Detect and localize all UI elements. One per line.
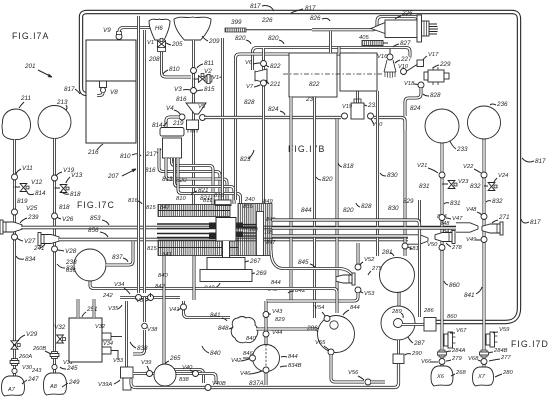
svg-text:840: 840 — [210, 350, 221, 357]
pipe V55 to bottom — [331, 355, 364, 382]
label 826 — [310, 15, 330, 22]
label V30 — [371, 119, 383, 128]
svg-text:815: 815 — [146, 205, 156, 211]
connector 271 — [482, 222, 503, 235]
valve ball V4 left of funnel — [179, 114, 185, 120]
valve ball V6 — [261, 61, 267, 67]
svg-text:208: 208 — [148, 56, 160, 63]
svg-text:V40B: V40B — [212, 381, 226, 387]
pipe vertical x194 below engine — [193, 256, 196, 300]
label V40B — [212, 381, 226, 387]
svg-text:277: 277 — [500, 355, 511, 361]
pipe 848 engine out — [272, 226, 456, 229]
svg-text:201: 201 — [24, 63, 36, 70]
label V32 — [54, 324, 66, 331]
label 817 right lower — [521, 219, 541, 226]
svg-text:217: 217 — [145, 151, 157, 158]
svg-text:289: 289 — [391, 309, 402, 315]
valve ball V37 — [148, 295, 154, 301]
svg-text:819: 819 — [17, 198, 28, 205]
label 837 — [112, 254, 128, 262]
vessel 209 — [174, 17, 211, 40]
svg-text:V55: V55 — [315, 340, 326, 346]
svg-text:841: 841 — [464, 292, 475, 299]
label V28 — [57, 248, 77, 255]
svg-text:V21: V21 — [417, 163, 427, 169]
label 813 — [162, 176, 173, 183]
svg-text:FIG.I7C: FIG.I7C — [77, 200, 115, 210]
svg-text:V33: V33 — [113, 358, 124, 364]
pipe vertical x291 from box — [290, 97, 293, 300]
valve ball V19 left of 231 — [342, 113, 348, 119]
fitting V35a right of 251 — [102, 333, 122, 340]
engine right shaft — [243, 225, 256, 237]
label 841 row — [210, 312, 227, 321]
pipe 289 down to valve 290 — [397, 340, 400, 354]
label 820 stair — [176, 177, 187, 184]
svg-text:831: 831 — [450, 200, 461, 207]
valve ball V42 — [250, 355, 256, 361]
svg-text:V43: V43 — [272, 309, 283, 315]
label 205 — [166, 41, 183, 48]
label V37 — [136, 298, 149, 304]
svg-text:V32: V32 — [54, 324, 66, 331]
pipe stem V52 — [357, 243, 360, 264]
svg-text:V34: V34 — [103, 341, 113, 347]
reservoir 233 — [425, 109, 459, 143]
engine top rail — [215, 200, 231, 206]
label 271 — [492, 214, 510, 223]
label 856 — [88, 227, 108, 237]
valve V67 solenoid — [444, 332, 456, 348]
tank 216 rectangle — [86, 40, 136, 143]
label V44 — [272, 330, 282, 336]
svg-text:V17: V17 — [428, 52, 439, 58]
svg-text:810: 810 — [120, 153, 131, 160]
label V50 — [427, 242, 438, 248]
fitting 284B — [480, 350, 489, 357]
svg-text:249: 249 — [68, 379, 80, 386]
label 828 under 229 — [0, 0, 1, 1]
svg-text:840: 840 — [246, 336, 256, 342]
pipe 844 engine out — [272, 220, 420, 240]
svg-text:V19: V19 — [342, 104, 352, 110]
reservoir 236 — [468, 106, 501, 139]
svg-text:V26: V26 — [62, 216, 74, 223]
svg-text:810: 810 — [176, 196, 186, 202]
label V23 — [458, 179, 469, 185]
svg-text:238: 238 — [65, 259, 77, 266]
svg-text:V49: V49 — [466, 237, 477, 243]
pipe 209 stem down to engine — [192, 40, 195, 204]
svg-text:284B: 284B — [493, 348, 508, 354]
engine top band split line — [158, 210, 230, 212]
svg-text:820: 820 — [176, 177, 187, 184]
label 818 left — [61, 191, 81, 198]
label V2 — [204, 68, 212, 75]
svg-text:V46: V46 — [240, 371, 251, 377]
svg-text:820: 820 — [343, 207, 354, 214]
svg-text:X6: X6 — [436, 374, 445, 380]
reservoir 238 — [74, 249, 106, 281]
label V7 — [246, 84, 260, 90]
label V16 — [377, 54, 388, 60]
svg-text:829: 829 — [275, 317, 285, 323]
svg-text:251: 251 — [86, 306, 98, 313]
label 840 S — [202, 346, 221, 357]
svg-text:290: 290 — [411, 351, 422, 357]
label V25 — [26, 205, 38, 212]
valve ball V40B — [205, 385, 211, 391]
svg-text:V42: V42 — [231, 358, 242, 364]
valve ball V38 — [142, 323, 148, 329]
valve ball V40 — [193, 371, 199, 377]
label V5 — [198, 104, 206, 110]
valve ball V28 — [52, 246, 58, 252]
svg-text:V50: V50 — [427, 242, 438, 248]
label 845 — [298, 259, 315, 268]
label V26 — [57, 216, 74, 223]
svg-text:817: 817 — [530, 219, 541, 226]
label V24 — [494, 173, 508, 182]
svg-text:824: 824 — [410, 105, 421, 112]
svg-text:816: 816 — [176, 96, 187, 103]
muffler 269 — [200, 270, 252, 282]
label V59 — [493, 327, 510, 333]
label 834B — [280, 363, 302, 369]
label 226 assembly — [395, 10, 413, 19]
svg-text:V29: V29 — [26, 331, 38, 338]
engine left shaft lower — [157, 234, 209, 238]
label 816 x143 — [128, 198, 142, 204]
label V43 — [268, 309, 283, 315]
svg-text:815: 815 — [147, 246, 157, 252]
svg-text:838: 838 — [137, 345, 148, 352]
blower 848 cloud — [231, 317, 258, 343]
label 846 gauge — [243, 351, 253, 357]
pipe cloud to reservoir 286 — [256, 329, 319, 332]
svg-text:V40: V40 — [182, 365, 193, 371]
label 286 pump — [306, 325, 318, 332]
label V32 fit — [95, 324, 106, 330]
label 848 mid — [268, 287, 278, 293]
label 277 — [489, 355, 511, 361]
pipe 824 right segment — [374, 118, 405, 131]
label 284B — [489, 348, 508, 354]
label 848 cloud — [218, 325, 233, 332]
label 830 low — [388, 205, 399, 212]
pipe 837A bottom long — [136, 363, 399, 388]
svg-text:221: 221 — [269, 81, 281, 88]
label 268 — [451, 370, 466, 376]
svg-text:V67: V67 — [456, 328, 467, 334]
label 820 b — [268, 35, 284, 44]
pipe filter to bottom — [131, 379, 136, 388]
label V18 — [404, 81, 418, 87]
svg-text:860: 860 — [447, 314, 457, 320]
svg-text:284A: 284A — [451, 348, 466, 354]
label 838 — [130, 342, 148, 352]
label 847 out — [443, 229, 453, 235]
svg-text:211: 211 — [20, 95, 31, 102]
svg-text:242: 242 — [102, 293, 113, 299]
label 824 right — [410, 105, 421, 112]
label 831 — [419, 183, 430, 190]
label 844 out — [437, 214, 447, 220]
engine hatch bottom band — [158, 240, 238, 256]
label 165 channel — [264, 230, 273, 236]
injector 226 cylinder — [385, 20, 417, 38]
svg-text:820: 820 — [235, 35, 246, 42]
svg-text:268: 268 — [455, 370, 466, 376]
svg-text:V13: V13 — [71, 172, 83, 179]
label 847 block — [266, 240, 276, 246]
label 290 — [405, 351, 422, 357]
svg-text:V48: V48 — [466, 207, 477, 213]
pipe 824 mid branch — [236, 54, 358, 200]
svg-text:265: 265 — [169, 355, 181, 362]
label V39A — [98, 380, 120, 388]
svg-text:810: 810 — [169, 66, 180, 73]
svg-text:399: 399 — [231, 19, 242, 26]
label V34 fit — [103, 341, 113, 347]
label 822 — [309, 81, 320, 88]
svg-text:844: 844 — [350, 305, 360, 311]
label 841 right — [464, 287, 482, 299]
label 844 low — [301, 207, 312, 214]
valve V14 branch — [194, 74, 212, 84]
svg-text:V6: V6 — [245, 60, 253, 66]
label 832 v — [486, 198, 503, 205]
svg-text:278: 278 — [451, 245, 462, 251]
pipe staircase e to engine — [178, 158, 241, 204]
pump 286 reservoir — [318, 316, 355, 353]
control box 822 right — [340, 53, 377, 91]
svg-text:816: 816 — [128, 198, 138, 204]
label 814 — [27, 190, 46, 197]
valve ball V48 — [481, 214, 487, 220]
pipe 820 upper branch — [253, 48, 411, 71]
label 827 — [393, 40, 411, 47]
label V39 — [141, 360, 152, 370]
svg-text:813: 813 — [162, 176, 173, 183]
hatch bar 399 — [225, 28, 246, 32]
label 828 — [423, 92, 441, 99]
tank 216 divider — [86, 80, 136, 82]
pipe staircase a to engine — [159, 148, 220, 204]
label 820 r — [316, 176, 333, 183]
svg-text:V56: V56 — [348, 370, 359, 376]
label 208 — [148, 56, 160, 63]
label 239 — [20, 214, 39, 223]
label 849 — [263, 199, 273, 205]
label 840 chain — [246, 336, 256, 342]
pipe V6-V7 vertical — [262, 48, 265, 203]
label V6 — [245, 60, 260, 66]
valve ball V22 — [481, 172, 487, 178]
svg-text:811: 811 — [204, 60, 214, 67]
label 820 low — [343, 207, 354, 214]
svg-text:853: 853 — [90, 215, 101, 222]
label 217 — [145, 149, 161, 158]
svg-text:815: 815 — [204, 86, 215, 93]
strainer under V16 — [384, 60, 396, 72]
valve ball V53 — [355, 287, 361, 293]
svg-text:821: 821 — [200, 195, 211, 202]
label V17 — [423, 52, 439, 60]
valve ball V39 — [147, 371, 153, 377]
control box 822 left — [289, 53, 337, 97]
svg-text:829: 829 — [403, 198, 414, 205]
pipe stem circle 236 — [483, 139, 486, 368]
svg-text:818: 818 — [214, 193, 224, 199]
valve V8 under divider — [100, 81, 107, 93]
pipe 842 from reservoir 238 — [90, 281, 337, 313]
pipe V38 extension — [143, 297, 146, 322]
svg-text:841: 841 — [162, 252, 172, 258]
label V42 — [231, 358, 249, 364]
vessel H6 — [149, 19, 170, 40]
svg-text:FIG.I7A: FIG.I7A — [12, 31, 49, 41]
label V56 — [348, 370, 364, 380]
label 211 — [19, 95, 31, 108]
label 828 mid — [244, 99, 255, 106]
label 269 — [252, 270, 267, 277]
valve ball V18 — [418, 82, 424, 88]
pipe stem balloon 211 to bell A7 — [13, 140, 16, 378]
label 275 — [368, 266, 382, 275]
bell X7 — [473, 367, 494, 386]
svg-text:824: 824 — [268, 106, 279, 113]
label 245 — [60, 365, 78, 372]
svg-text:247: 247 — [27, 376, 39, 383]
svg-text:841: 841 — [210, 312, 221, 319]
pipe funnel left ball to 217 — [166, 117, 179, 127]
pipe vertical x138 long — [137, 16, 140, 293]
svg-text:818: 818 — [59, 204, 70, 211]
svg-text:260B: 260B — [32, 346, 46, 352]
svg-text:844: 844 — [288, 354, 298, 360]
label 817 left leader — [64, 86, 80, 94]
label 815 x151 — [146, 205, 156, 211]
label 815 — [197, 86, 215, 93]
svg-text:287: 287 — [413, 340, 425, 347]
label 822 nozzle — [266, 63, 281, 70]
svg-text:818: 818 — [70, 191, 81, 198]
pipe 847 engine out — [272, 234, 408, 237]
label 846 — [266, 217, 276, 223]
connector 239 at pipe 853 start — [0, 220, 22, 234]
valve box 290 — [393, 354, 404, 364]
label 823 — [240, 150, 254, 163]
label 286 coupler — [423, 308, 434, 314]
svg-text:845: 845 — [298, 259, 309, 266]
label 810 stair — [176, 196, 186, 202]
svg-text:V5: V5 — [198, 104, 206, 110]
label 829 low — [275, 317, 285, 323]
svg-text:838: 838 — [179, 377, 189, 383]
svg-text:V32: V32 — [95, 324, 106, 330]
pipe V1 down and right to stem — [162, 52, 192, 77]
coupler 286 square — [424, 318, 436, 332]
svg-text:V14: V14 — [212, 75, 222, 81]
label 233 — [450, 141, 468, 153]
svg-text:275: 275 — [371, 266, 382, 272]
svg-text:V4: V4 — [166, 105, 174, 112]
svg-text:860: 860 — [449, 282, 460, 289]
svg-text:828: 828 — [430, 92, 441, 99]
injector 226 disc stack — [422, 21, 430, 36]
nozzle into connector 278 — [408, 235, 428, 244]
engine bottom band split line — [158, 247, 238, 249]
label V35 — [108, 305, 122, 312]
valve ball V5 right of funnel — [200, 115, 206, 121]
valve V31 — [52, 364, 57, 369]
svg-text:827: 827 — [400, 40, 411, 47]
label V49 — [466, 237, 481, 243]
svg-text:847: 847 — [160, 205, 170, 211]
valve ball V47 — [439, 215, 445, 221]
label 842 left — [155, 284, 165, 290]
label 860 low — [447, 314, 457, 320]
valve ball V27 — [12, 234, 18, 240]
label 819 — [17, 198, 28, 205]
label V14 — [212, 75, 222, 81]
pipe into box right — [338, 47, 341, 53]
label 810 under tank — [120, 153, 141, 160]
label V48 — [466, 207, 482, 215]
valve ball V52 — [355, 264, 361, 270]
valve 231 block — [351, 99, 364, 119]
svg-text:V27: V27 — [24, 238, 36, 245]
pipe V8 to border — [97, 93, 103, 96]
valve ball V50 — [439, 245, 445, 251]
label 247 — [22, 376, 39, 384]
valve ball V16 stub — [389, 49, 391, 54]
muffler 267 — [207, 258, 245, 270]
label 816 lower — [145, 167, 156, 174]
label 238 — [65, 259, 77, 266]
label 811 — [197, 60, 214, 68]
svg-text:V24: V24 — [498, 173, 508, 179]
label 831 v — [444, 200, 461, 207]
valve ball V56 — [365, 379, 371, 385]
label 843 — [204, 283, 220, 292]
svg-text:H6: H6 — [155, 26, 163, 32]
svg-text:226: 226 — [261, 17, 273, 24]
label 847 x163 — [160, 205, 170, 211]
label A8 — [49, 384, 58, 390]
svg-text:834B: 834B — [288, 363, 302, 369]
svg-text:848: 848 — [218, 325, 229, 332]
svg-text:286: 286 — [306, 325, 318, 332]
svg-text:219: 219 — [172, 120, 184, 127]
pipe 226 supply line — [246, 17, 418, 30]
svg-text:280: 280 — [502, 370, 513, 376]
label 815 mid — [147, 246, 157, 252]
label 844 mid — [271, 280, 281, 286]
label 216 — [87, 144, 103, 156]
svg-text:267: 267 — [249, 258, 261, 265]
svg-text:823: 823 — [240, 156, 251, 163]
valve ball 181 — [402, 243, 408, 249]
svg-text:V68: V68 — [468, 356, 479, 362]
svg-text:821: 821 — [198, 187, 209, 194]
connector 241 on pipe 856 — [38, 233, 59, 246]
svg-text:226: 226 — [401, 10, 413, 17]
pipe vertical x419 — [418, 200, 421, 317]
svg-text:V23: V23 — [458, 179, 469, 185]
